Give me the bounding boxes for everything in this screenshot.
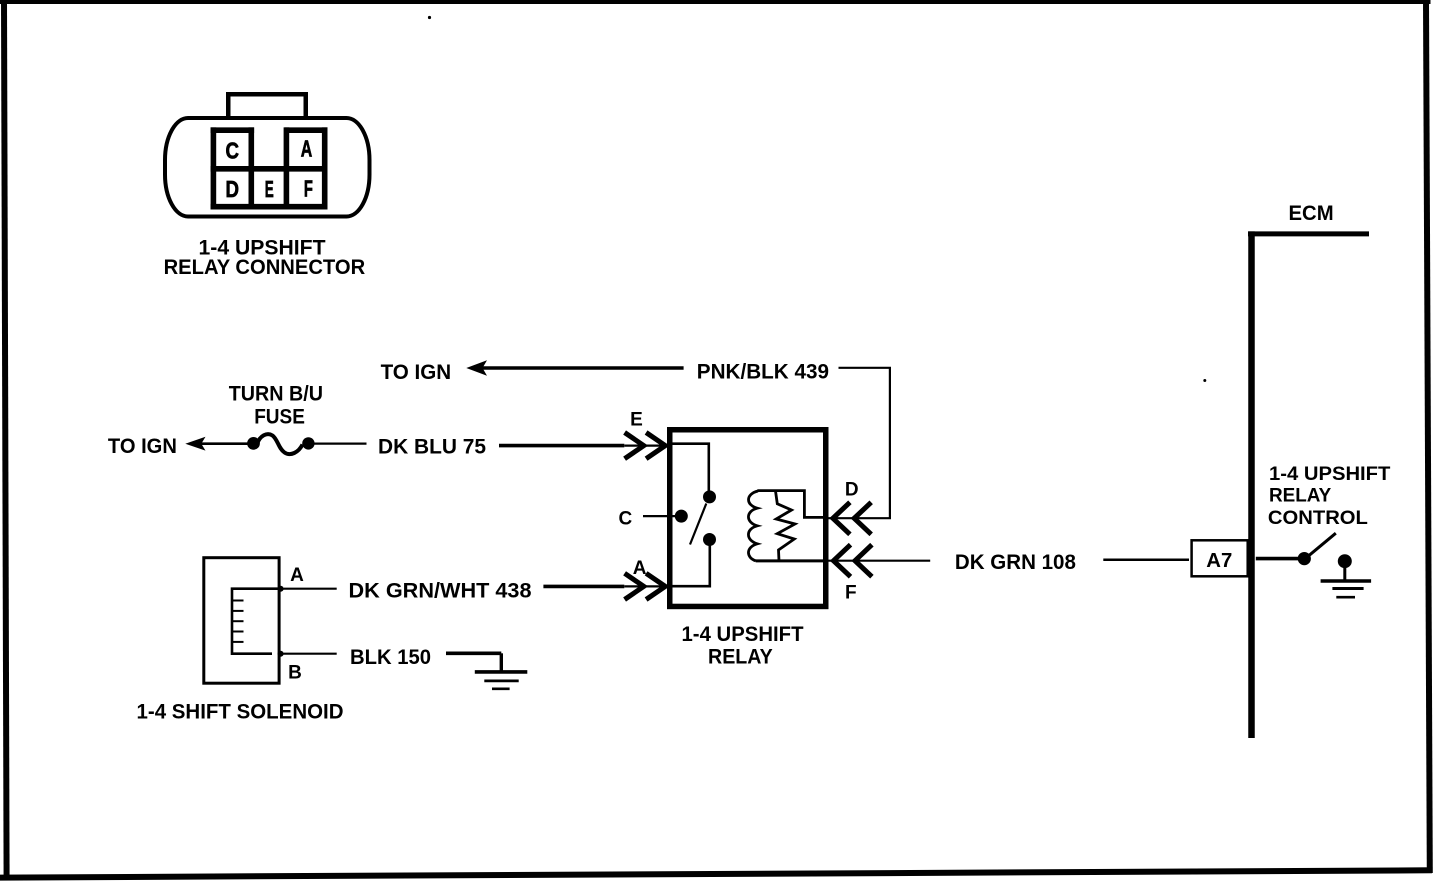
svg-text:DK BLU 75: DK BLU 75 <box>378 435 486 459</box>
svg-text:RELAY CONNECTOR: RELAY CONNECTOR <box>164 255 366 279</box>
svg-text:PNK/BLK 439: PNK/BLK 439 <box>697 359 829 383</box>
svg-text:BLK 150: BLK 150 <box>350 645 431 669</box>
svg-text:RELAY: RELAY <box>708 644 773 668</box>
svg-text:D: D <box>845 479 859 500</box>
svg-text:D: D <box>226 176 240 202</box>
svg-text:A: A <box>633 558 647 579</box>
svg-text:TO IGN: TO IGN <box>381 360 452 384</box>
svg-text:1-4 SHIFT SOLENOID: 1-4 SHIFT SOLENOID <box>137 699 344 723</box>
svg-text:A: A <box>290 565 304 586</box>
svg-text:CONTROL: CONTROL <box>1268 507 1368 529</box>
svg-text:E: E <box>630 409 643 430</box>
svg-text:DK GRN 108: DK GRN 108 <box>955 550 1076 574</box>
svg-text:1-4 UPSHIFT: 1-4 UPSHIFT <box>1269 463 1390 485</box>
svg-text:C: C <box>619 509 633 530</box>
svg-text:B: B <box>288 663 302 684</box>
svg-text:RELAY: RELAY <box>1269 484 1331 506</box>
svg-text:F: F <box>304 176 313 202</box>
svg-text:A7: A7 <box>1206 550 1232 572</box>
svg-text:C: C <box>226 138 240 164</box>
svg-text:A: A <box>301 136 313 162</box>
svg-text:TO IGN: TO IGN <box>108 434 177 458</box>
svg-text:TURN B/U: TURN B/U <box>229 381 323 405</box>
svg-text:F: F <box>845 583 857 604</box>
svg-text:ECM: ECM <box>1289 202 1334 225</box>
svg-text:1-4 UPSHIFT: 1-4 UPSHIFT <box>682 622 804 646</box>
svg-text:DK GRN/WHT 438: DK GRN/WHT 438 <box>349 579 532 603</box>
svg-text:E: E <box>265 176 274 202</box>
svg-text:FUSE: FUSE <box>254 405 305 429</box>
